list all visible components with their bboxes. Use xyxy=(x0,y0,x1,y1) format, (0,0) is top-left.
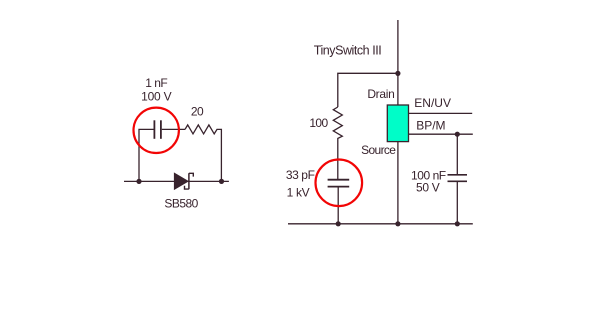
svg-text:SB580: SB580 xyxy=(164,197,198,211)
svg-text:Drain: Drain xyxy=(367,87,394,101)
svg-text:TinySwitch III: TinySwitch III xyxy=(314,44,382,58)
svg-text:50 V: 50 V xyxy=(416,181,440,195)
svg-text:1 nF: 1 nF xyxy=(145,76,167,90)
svg-text:100 V: 100 V xyxy=(141,89,172,103)
svg-text:1 kV: 1 kV xyxy=(287,186,310,200)
svg-text:BP/M: BP/M xyxy=(416,118,445,132)
svg-text:EN/UV: EN/UV xyxy=(414,96,451,110)
svg-text:100: 100 xyxy=(309,116,328,130)
svg-text:33 pF: 33 pF xyxy=(286,168,315,182)
svg-text:20: 20 xyxy=(191,105,204,119)
svg-text:Source: Source xyxy=(361,143,396,157)
